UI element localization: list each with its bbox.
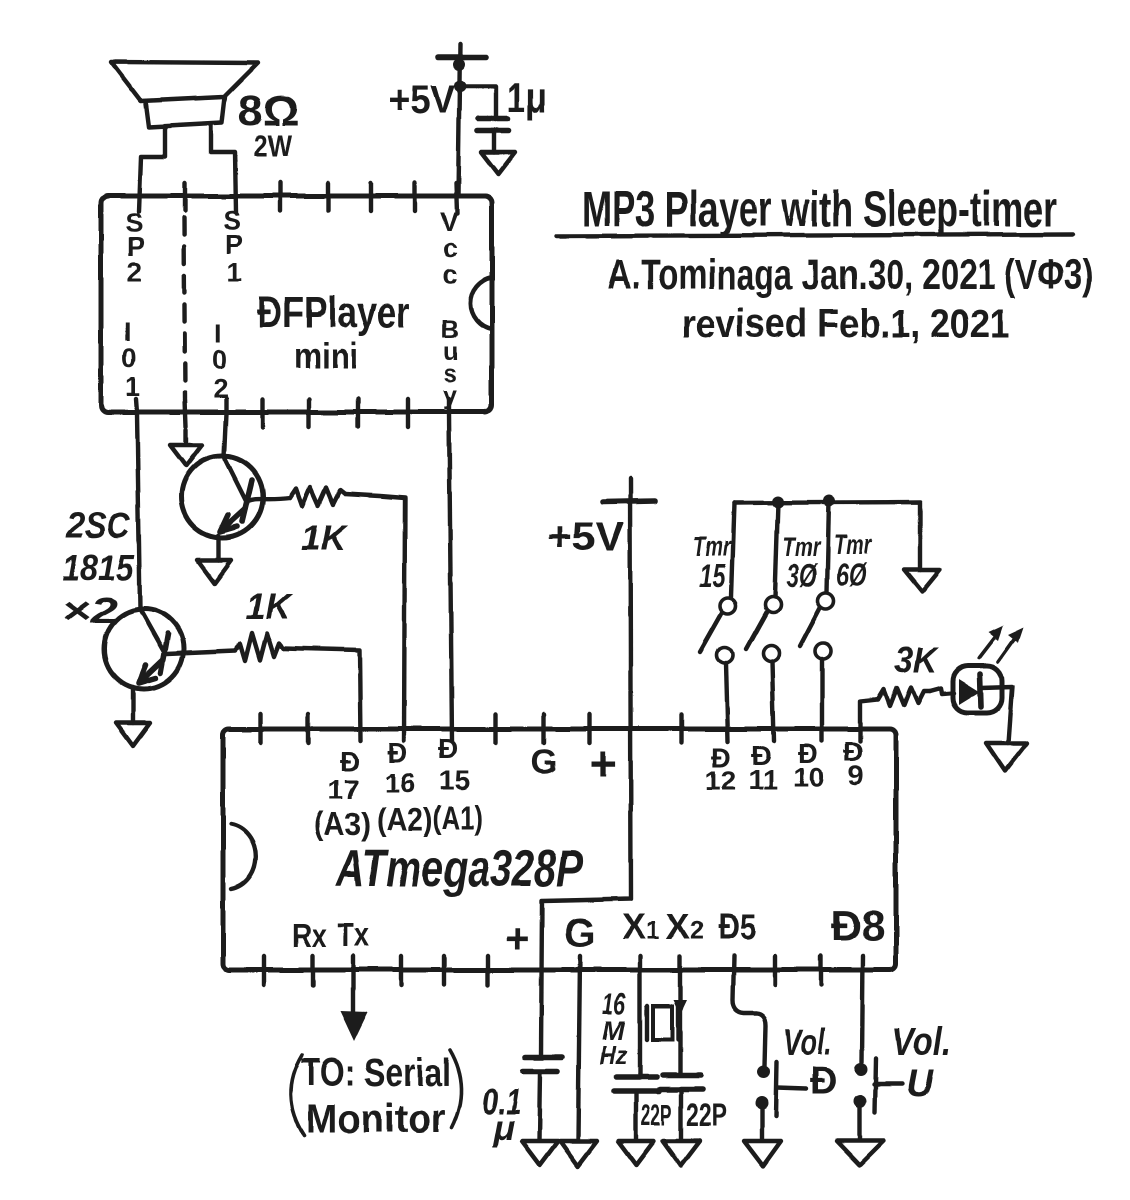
svg-text:3K: 3K xyxy=(895,639,940,680)
switch S3 Tmr60 xyxy=(800,501,834,741)
svg-text:×2: ×2 xyxy=(62,590,118,631)
svg-text:ĐFPlayer: ĐFPlayer xyxy=(257,288,410,337)
svg-text:mini: mini xyxy=(294,335,358,376)
svg-text:Đ5: Đ5 xyxy=(718,906,757,947)
resistor R3 3K xyxy=(860,639,940,741)
svg-text:A.Tominaga Jan.30, 2021 (VΦ3): A.Tominaga Jan.30, 2021 (VΦ3) xyxy=(608,251,1093,299)
DFPlayer mini U1 xyxy=(101,196,492,412)
svg-text:1K: 1K xyxy=(301,517,349,558)
svg-text:TO: Serial: TO: Serial xyxy=(301,1051,451,1095)
svg-text:MP3 Player with Sleep-timer: MP3 Player with Sleep-timer xyxy=(582,181,1057,237)
svg-text:G: G xyxy=(564,911,595,955)
wire BUSY to D15 xyxy=(449,399,452,741)
timer bus (+5V to switches) xyxy=(734,495,920,569)
ground arrow (dashed pin) xyxy=(170,445,202,466)
MCU U2 ATmega328P box xyxy=(223,729,896,970)
transistor Q2 xyxy=(104,609,235,723)
wire R3 to LED xyxy=(930,688,954,694)
svg-text:Rx: Rx xyxy=(292,917,328,954)
wire R2 to D17 xyxy=(283,648,361,741)
svg-text:1μ: 1μ xyxy=(507,74,547,121)
svg-text:12: 12 xyxy=(705,765,736,796)
svg-text:Tmr: Tmr xyxy=(834,529,874,560)
arrow mark on X2 wire xyxy=(673,1000,687,1015)
ground (Q2 emitter) xyxy=(116,723,150,746)
svg-text:Tx: Tx xyxy=(337,916,370,953)
svg-text:ATmega328P: ATmega328P xyxy=(334,840,583,898)
svg-text:Đ: Đ xyxy=(340,746,360,777)
title: MP3 Player with Sleep-timer xyxy=(556,181,1073,237)
svg-text:11: 11 xyxy=(748,764,778,795)
ground (LED) xyxy=(986,743,1027,771)
pushbutton SW5 Vol.U xyxy=(854,1020,952,1140)
svg-text:+: + xyxy=(589,738,617,791)
wire X2 to C4 xyxy=(678,956,682,1075)
wire X1 to C3 xyxy=(638,956,642,1077)
U2 bottom pin ticks xyxy=(264,956,821,985)
speaker LS1 xyxy=(111,62,258,212)
svg-text:15: 15 xyxy=(439,765,470,796)
U2 left-edge notch xyxy=(231,824,256,889)
U1 name DFPlayer mini xyxy=(257,288,410,376)
ground (Q1 emitter) xyxy=(197,560,231,583)
svg-text:Vol.: Vol. xyxy=(784,1022,831,1064)
ground (SW5) xyxy=(837,1141,884,1165)
U1 top pin ticks xyxy=(281,183,457,213)
svg-text:17: 17 xyxy=(328,774,359,805)
speaker value 8ohm 2W xyxy=(238,87,299,163)
U2 pin labels bottom + G X1 X2 D5 D8 xyxy=(505,902,885,962)
svg-text:μ: μ xyxy=(492,1107,515,1148)
+5V supply (top) xyxy=(389,44,486,196)
wire R1 to D16 xyxy=(345,494,405,741)
svg-text:Đ: Đ xyxy=(810,1061,837,1103)
svg-text:2W: 2W xyxy=(254,128,293,163)
wire D5 to Vol.D button xyxy=(733,956,766,1066)
svg-text:(A2): (A2) xyxy=(377,802,433,838)
svg-text:2SC: 2SC xyxy=(65,505,131,546)
capacitor C2 0.1u xyxy=(483,1057,562,1148)
label 2SC1815 x2 xyxy=(62,505,135,631)
Tx serial arrow xyxy=(340,956,368,1041)
svg-text:Đ: Đ xyxy=(438,733,458,764)
switch S1 Tmr15 xyxy=(700,503,736,741)
U2 pin labels D12 D11 D10 D9 xyxy=(705,736,864,796)
LED D1 xyxy=(953,666,1012,743)
U2 pin labels (A3)(A2)(A1) xyxy=(313,800,483,842)
svg-text:22P: 22P xyxy=(686,1097,727,1133)
svg-text:22P: 22P xyxy=(641,1099,672,1132)
svg-text:G: G xyxy=(531,743,557,781)
label Tmr 30 xyxy=(783,531,821,594)
resistor R1 1K xyxy=(290,487,349,558)
wire +5V through U2 to AVCC xyxy=(541,479,631,1056)
resistor R2 1K xyxy=(235,586,294,661)
ground (timer bus) xyxy=(904,569,940,591)
ground (G pin) xyxy=(560,1141,597,1166)
wire +5V to C1 xyxy=(460,86,496,117)
+5V supply (mcu) xyxy=(547,501,655,559)
pushbutton SW4 Vol.D xyxy=(756,1022,838,1140)
svg-text:Vcc: Vcc xyxy=(440,207,458,289)
wire G (bottom) to ground xyxy=(578,956,580,1140)
LED light arrows xyxy=(979,626,1023,662)
svg-text:Vol.: Vol. xyxy=(892,1020,951,1064)
svg-text:+: + xyxy=(505,915,530,962)
wire D8 to Vol.U button xyxy=(862,956,863,1062)
U2 pin labels Rx Tx xyxy=(292,916,370,954)
capacitor C3 22p xyxy=(614,1077,672,1140)
capacitor C1 1u xyxy=(477,74,547,152)
U2 pin labels D17 D16 D15 xyxy=(328,733,470,805)
svg-text:SP2: SP2 xyxy=(125,208,145,287)
svg-text:Đ8: Đ8 xyxy=(831,902,885,950)
ground (C2) xyxy=(522,1141,558,1165)
U2 top pin ticks xyxy=(261,714,681,743)
label Tmr 15 xyxy=(693,531,731,594)
svg-text:(A1): (A1) xyxy=(433,800,483,836)
svg-text:10: 10 xyxy=(793,762,824,793)
svg-text:1K: 1K xyxy=(246,586,294,627)
ground (C3) xyxy=(618,1141,654,1165)
wire IO1 to Q2 collector xyxy=(136,399,140,609)
label Tmr 60 xyxy=(834,529,874,593)
ground (SW4) xyxy=(744,1141,781,1166)
svg-text:1815: 1815 xyxy=(62,547,135,588)
wire IO2 to Q1 collector xyxy=(224,399,226,457)
svg-text:Monitor: Monitor xyxy=(306,1097,446,1141)
switch S2 Tmr30 xyxy=(746,502,781,741)
svg-text:9: 9 xyxy=(848,760,864,791)
U1 bottom pin ticks xyxy=(263,399,408,427)
transistor Q1 xyxy=(181,456,290,560)
U2 pin labels G + (top) xyxy=(531,738,617,791)
svg-text:3Ø: 3Ø xyxy=(787,558,818,594)
svg-text:revised Feb.1, 2021: revised Feb.1, 2021 xyxy=(681,302,1010,346)
svg-text:6Ø: 6Ø xyxy=(836,557,867,593)
svg-text:Đ: Đ xyxy=(387,737,407,768)
capacitor C4 22p xyxy=(660,1075,727,1140)
svg-text:+5V: +5V xyxy=(389,78,455,122)
ground (C1) xyxy=(481,152,515,174)
svg-text:16: 16 xyxy=(384,767,415,798)
dashed pin wire (unused IO) xyxy=(184,183,186,444)
svg-text:Busy: Busy xyxy=(441,316,459,410)
svg-text:(A3): (A3) xyxy=(313,806,371,842)
ground (C4) xyxy=(663,1141,700,1166)
svg-text:+5V: +5V xyxy=(547,515,624,559)
svg-text:Hz: Hz xyxy=(600,1040,628,1070)
crystal Y1 16MHz xyxy=(600,988,678,1070)
svg-text:U: U xyxy=(906,1063,935,1105)
label (TO: Serial Monitor) xyxy=(290,1050,461,1141)
svg-text:15: 15 xyxy=(699,558,726,594)
